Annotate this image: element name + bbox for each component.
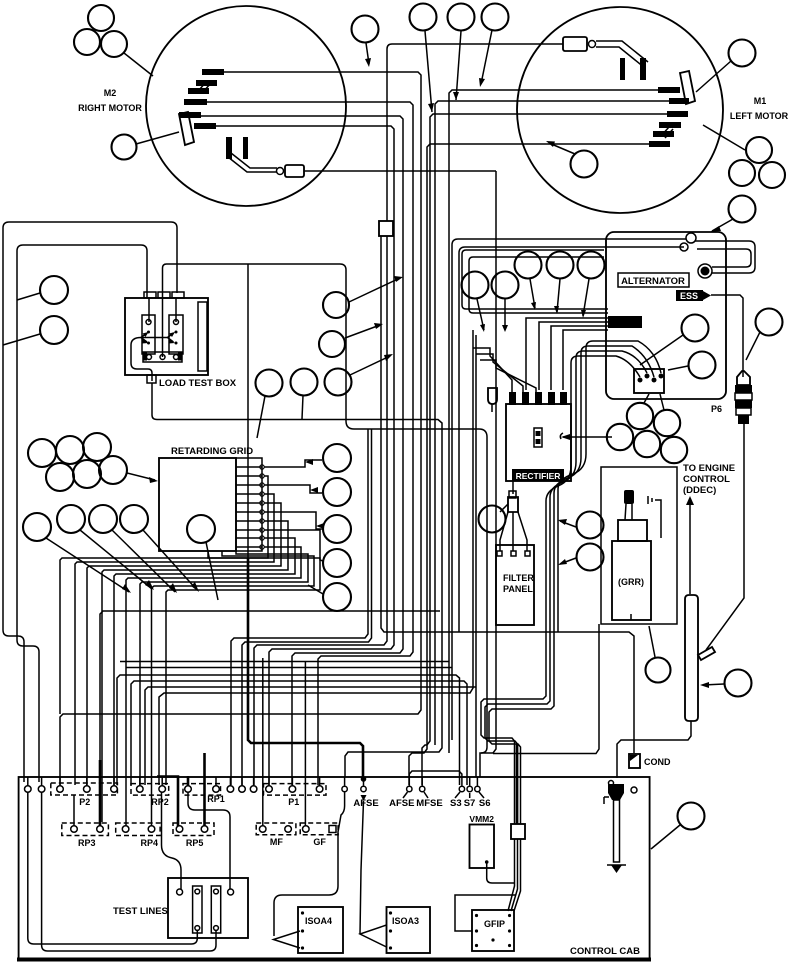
- wire M1 lug2 to MFSE: [435, 101, 669, 745]
- callout circles right of filter (2): [558, 512, 604, 539]
- COND connector: [629, 754, 640, 793]
- alternator top bolt: [680, 233, 696, 251]
- wire M1 lug3 to AFSE2: [422, 114, 667, 785]
- ISOA3 box: [387, 907, 431, 953]
- GRR top small box: [618, 520, 647, 541]
- wire muffler line down: [481, 171, 496, 753]
- M1 cable connector: [563, 37, 648, 68]
- svg-text:MF: MF: [270, 837, 283, 847]
- wire RP1-1 to test lines right: [188, 792, 230, 889]
- VMM2 connector: [508, 744, 525, 911]
- wire M1 lug1 to VMM2 connector: [449, 90, 658, 753]
- connector strip RP1: [183, 784, 225, 804]
- svg-text:COND: COND: [644, 757, 671, 767]
- grid wire t3 arrow to callout2: [264, 485, 322, 493]
- motor M1 circle: [517, 7, 723, 213]
- wire junction vertical x248 to AFSE1 (heavy): [247, 264, 249, 560]
- circle row lower-left (4): [23, 505, 148, 541]
- heavy wire from staircase to RP5-2: [203, 753, 206, 826]
- connector strip RP4: [116, 823, 160, 848]
- callout circles right of grid (5): [323, 444, 351, 611]
- callout circles top-left trio: [74, 5, 153, 76]
- connector strip GF: [300, 823, 338, 847]
- callout circle right of P6: [746, 309, 783, 361]
- junction dot AFSE1: [361, 776, 367, 782]
- M2 cable to connector: [228, 153, 304, 177]
- ISOA3 flag wire: [360, 801, 387, 947]
- connector strip RP2: [131, 784, 169, 807]
- retarding grid box: [159, 458, 264, 551]
- labels AFSE AFSE MFSE S3 S7 S6: [353, 798, 490, 809]
- long horizontal wire LH1 to S3: [117, 675, 460, 785]
- callout circle right of bar: [700, 670, 752, 697]
- P6 connector: [735, 371, 752, 424]
- round connector on loop: [698, 264, 712, 278]
- pointer lines from circle row to staircase: [46, 530, 199, 593]
- svg-text:CONTROL: CONTROL: [683, 474, 730, 485]
- ISOA4 box: [298, 907, 343, 953]
- label RECTIFIER: [512, 469, 564, 481]
- label M1 LEFT MOTOR: [730, 96, 789, 121]
- M2 lug terminals (hatched): [179, 69, 224, 129]
- M1 brush bar: [680, 71, 695, 104]
- connector strip RP3: [62, 823, 109, 848]
- long horizontal wire LH4: [159, 330, 473, 785]
- M2 cable posts: [226, 137, 248, 159]
- callout circles above alternator connector (3): [515, 252, 605, 319]
- wire P6 to bar stub: [706, 424, 744, 650]
- outer boundary wire (left loop): [3, 222, 177, 782]
- control cab box: [17, 777, 651, 960]
- callout circle inside grid: [187, 515, 218, 600]
- svg-text:ESS: ESS: [680, 291, 698, 301]
- svg-text:CONTROL CAB: CONTROL CAB: [570, 946, 640, 957]
- GFIP left wire: [455, 895, 516, 931]
- svg-text:P1: P1: [288, 797, 299, 807]
- wire bundle S1E to rectifier: [462, 250, 608, 390]
- svg-text:ALTERNATOR: ALTERNATOR: [621, 276, 685, 287]
- svg-text:M1: M1: [754, 96, 767, 106]
- svg-text:(GRR): (GRR): [618, 577, 644, 587]
- wire to COND horizontal: [475, 335, 477, 777]
- svg-text:(DDEC): (DDEC): [683, 485, 716, 496]
- rectifier fuse symbol: [534, 428, 542, 447]
- heavy wire along edge to RP5-1: [157, 777, 178, 827]
- wire from staircase to MF-1: [262, 658, 264, 826]
- svg-text:VMM2: VMM2: [469, 814, 494, 824]
- connector strip RP5: [173, 823, 214, 848]
- grid wire t1 to callout1: [264, 460, 322, 467]
- GRR enclosure: [601, 467, 677, 624]
- dashed wire crossing bundle: [152, 383, 442, 777]
- svg-text:LEFT MOTOR: LEFT MOTOR: [730, 111, 789, 121]
- wire GRR bottom stub: [630, 614, 632, 620]
- wire RP2-2 to test lines left: [162, 792, 182, 889]
- callout circle control cab: [651, 803, 705, 850]
- S1E connector on alternator: [608, 316, 642, 328]
- wire left terminal 2 to test lines bottom: [42, 792, 216, 951]
- wire loop above AFSE2 MFSE: [409, 771, 462, 777]
- callout circle left of filter: [479, 504, 509, 533]
- connector strip P2: [51, 783, 118, 807]
- callout circle alternator top: [710, 196, 756, 233]
- svg-text:RIGHT MOTOR: RIGHT MOTOR: [78, 103, 142, 113]
- label ESS: [676, 290, 711, 301]
- wire rectifier bottom to filter connector: [512, 481, 514, 494]
- svg-text:RP3: RP3: [78, 838, 96, 848]
- callout5 pointer: [308, 585, 323, 594]
- wire P2 to RP3: [73, 795, 75, 826]
- M1 cable posts: [620, 58, 646, 80]
- callout circles top middle row: [352, 16, 379, 68]
- arrow callout into rectifier: [560, 433, 612, 440]
- wire long horizontal y667: [126, 667, 452, 669]
- wire bar bottom to cab sensor: [617, 721, 691, 778]
- circle cluster mid-left (6): [28, 433, 158, 491]
- wire long horizontal y611 to RP3-2: [100, 611, 440, 764]
- wire load box top to left strip: [149, 298, 176, 322]
- terminal label leader ticks: [403, 792, 484, 798]
- long horizontal wire LH2 to S7: [131, 681, 467, 785]
- long cable bar: [617, 595, 715, 778]
- svg-text:S3: S3: [450, 798, 462, 809]
- ESS wire to P6: [711, 295, 743, 377]
- wire GRR enclosure left edge down to S6 row: [493, 624, 599, 754]
- alternator box: [606, 232, 726, 399]
- M1 lug terminals (hatched): [649, 87, 689, 147]
- GRR top terminal: [624, 490, 634, 520]
- wire M2 lug1 down to P1: [60, 72, 421, 785]
- wire long horizontal y661: [120, 661, 449, 663]
- wire from staircase to GF-1: [304, 662, 306, 826]
- diagonal feed wires to rectifier: [473, 348, 536, 392]
- svg-text:LOAD TEST BOX: LOAD TEST BOX: [159, 378, 237, 389]
- svg-text:AFSE: AFSE: [353, 798, 378, 809]
- callout circles alternator right (2): [640, 315, 709, 366]
- callout circles cluster above GRR (5): [607, 394, 687, 463]
- callout circle below M1: [546, 141, 598, 178]
- svg-text:AFSE: AFSE: [389, 798, 414, 809]
- svg-text:PANEL: PANEL: [503, 584, 533, 594]
- alternator bottom connector: [634, 369, 664, 393]
- wire pair alternator to bundle: [452, 239, 686, 395]
- alternator right loop wire: [695, 241, 755, 273]
- callout circle M2 lower: [112, 132, 180, 160]
- M2 brush bar: [179, 112, 194, 145]
- svg-text:RECTIFIER: RECTIFIER: [516, 471, 561, 481]
- GRR box: [612, 541, 651, 620]
- wire M1 lug5 to AFSE stub: [409, 144, 649, 785]
- wire left terminal 1 to test lines bottom: [28, 792, 198, 944]
- GRR capacitor mark: [648, 496, 661, 538]
- GFIP box: [472, 910, 514, 951]
- label TO ENGINE CONTROL DDEC: [683, 463, 735, 496]
- grid wire t6 arrow to callout3: [264, 512, 322, 529]
- callout circles below load box enclosure (3): [256, 370, 283, 439]
- inner boundary wire: [17, 245, 147, 782]
- callout circles at bundle mid (2): [323, 276, 403, 318]
- filter panel box: [496, 512, 534, 625]
- svg-text:RP5: RP5: [186, 838, 204, 848]
- terminal stubs and circles on cab edge: [25, 776, 485, 801]
- svg-text:P6: P6: [711, 404, 722, 414]
- callout circle M1 top: [696, 40, 756, 93]
- callout circle left of bar: [646, 626, 671, 683]
- svg-text:ISOA3: ISOA3: [392, 916, 419, 926]
- motor M2 circle: [146, 6, 346, 206]
- callout circles M1 right cluster: [703, 125, 785, 188]
- filter panel connector: [508, 491, 518, 512]
- wire from M2 cable connector to bundle: [304, 170, 496, 172]
- wire load box enclosure to AFSE: [163, 264, 488, 777]
- callout circles pair left (2): [462, 272, 519, 333]
- heavy RP1-1 stub: [187, 776, 190, 786]
- wire M2 lug5 down to P1: [201, 116, 403, 785]
- svg-text:GFIP: GFIP: [484, 919, 505, 929]
- svg-text:RETARDING GRID: RETARDING GRID: [171, 446, 253, 457]
- small lug below diagonals: [488, 388, 497, 412]
- svg-text:TO ENGINE: TO ENGINE: [683, 463, 735, 474]
- svg-text:TEST LINES: TEST LINES: [113, 906, 168, 917]
- label FILTER PANEL: [503, 573, 534, 594]
- VMM2 box: [469, 814, 514, 883]
- wire M2 lug4 down to P1: [207, 102, 413, 785]
- arrow to engine control: [686, 496, 694, 594]
- svg-text:RP1: RP1: [207, 794, 225, 804]
- wires alternator connector down-left: [481, 341, 661, 824]
- svg-text:S6: S6: [479, 798, 491, 809]
- rectifier box: [506, 392, 571, 481]
- svg-text:M2: M2: [104, 88, 117, 98]
- grid wire t8 arrow to callout4: [264, 530, 323, 561]
- ISOA4 flag wire from AFSE: [274, 792, 345, 948]
- svg-text:RP2: RP2: [151, 797, 169, 807]
- svg-text:ISOA4: ISOA4: [305, 916, 332, 926]
- wire M1 cable to bundle via inline connector: [254, 44, 634, 785]
- test lines box: [168, 878, 248, 938]
- load test box: [125, 292, 208, 383]
- cab sensor device: [604, 781, 626, 874]
- svg-text:MFSE: MFSE: [416, 798, 442, 809]
- svg-text:FILTER: FILTER: [503, 573, 534, 583]
- svg-text:P2: P2: [79, 797, 90, 807]
- callout circles left pair: [17, 276, 68, 304]
- label ALTERNATOR: [618, 273, 689, 287]
- wire alternator pair cont. to VMM2 connector: [451, 395, 453, 740]
- wire M2 lug6 down to terminal: [216, 126, 394, 785]
- long horizontal wire LH3 to S6 area: [145, 687, 476, 785]
- grid staircase wires to bottom strips: [60, 476, 320, 826]
- connector strip P1: [264, 784, 327, 807]
- svg-text:GF: GF: [313, 837, 326, 847]
- svg-text:RP4: RP4: [141, 838, 159, 848]
- connector strip MF: [256, 823, 296, 847]
- heavy wire to RP3-2: [99, 760, 102, 826]
- wire pair from enclosure to P2 area terminals: [231, 429, 368, 785]
- label M2 RIGHT MOTOR: [78, 88, 142, 113]
- svg-text:S7: S7: [464, 798, 476, 809]
